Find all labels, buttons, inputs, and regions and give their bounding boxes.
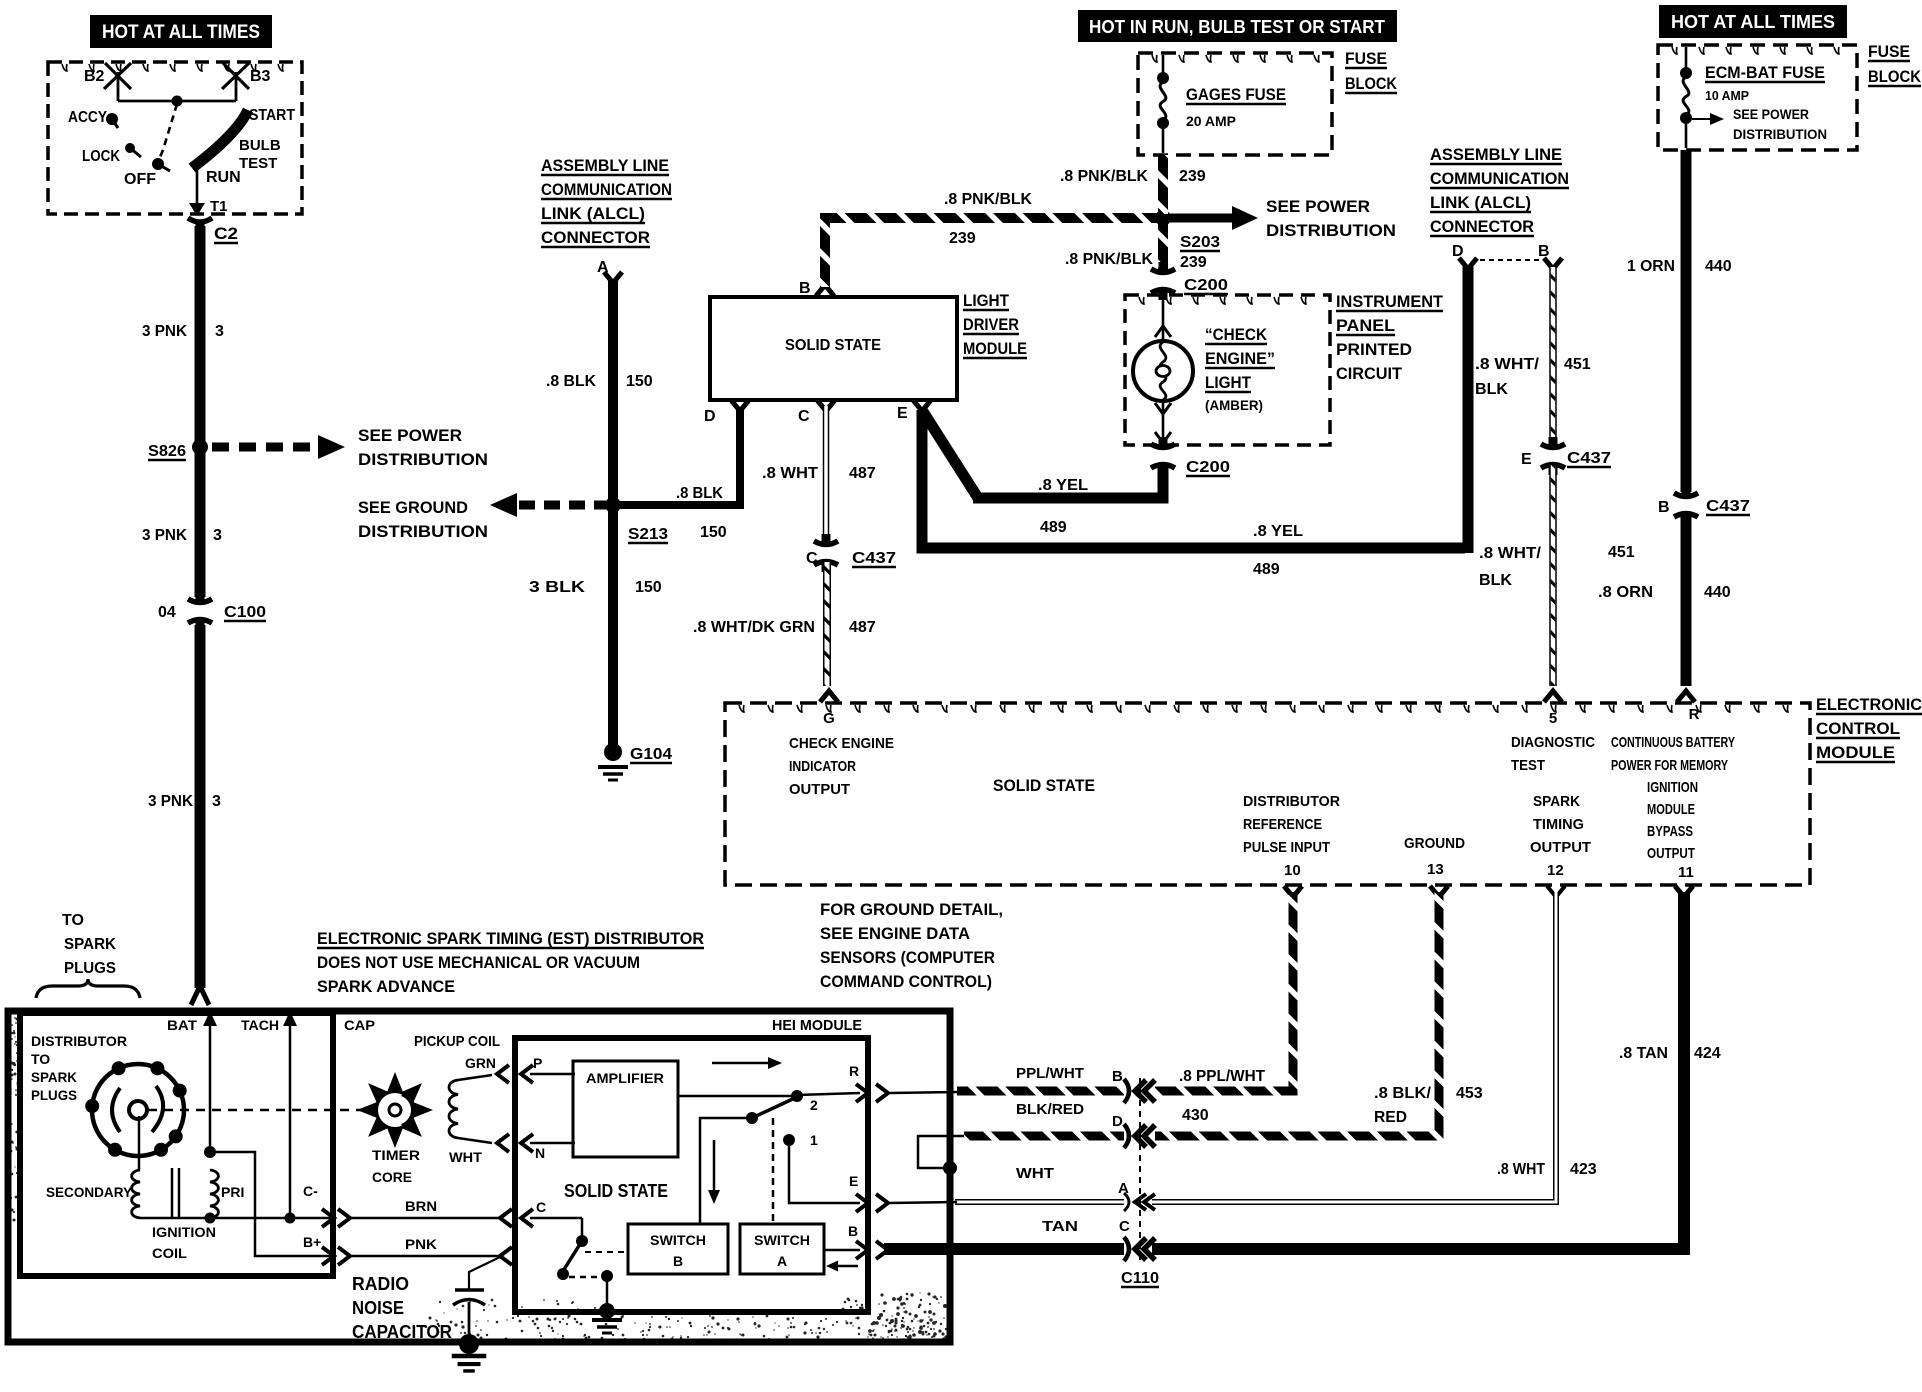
svg-text:.8 PNK/BLK: .8 PNK/BLK [1065, 251, 1153, 268]
svg-text:12: 12 [1547, 862, 1564, 879]
svg-text:20 AMP: 20 AMP [1186, 113, 1236, 129]
svg-text:.8 PNK/BLK: .8 PNK/BLK [1060, 168, 1148, 185]
svg-text:451: 451 [1564, 356, 1591, 373]
svg-text:C200: C200 [1186, 459, 1230, 476]
svg-text:COIL: COIL [152, 1245, 187, 1261]
svg-text:TACH: TACH [241, 1017, 279, 1033]
svg-text:TO: TO [62, 912, 84, 929]
svg-text:3: 3 [212, 793, 221, 810]
gages fuse F1 20A [1162, 55, 1165, 73]
svg-text:ELECTRONIC: ELECTRONIC [1816, 695, 1922, 714]
switch B [628, 1224, 728, 1274]
wire 1 ORN 440 [1681, 150, 1692, 492]
svg-text:.8 WHT/: .8 WHT/ [1475, 356, 1540, 373]
ground G104 [604, 743, 622, 761]
svg-text:G: G [823, 710, 835, 727]
svg-text:423: 423 [1570, 1161, 1597, 1178]
svg-text:G104: G104 [630, 746, 672, 763]
distributor case ground stub [918, 1136, 964, 1168]
svg-text:CHECK ENGINE: CHECK ENGINE [789, 735, 894, 752]
svg-text:E: E [1521, 451, 1532, 468]
svg-text:10 AMP: 10 AMP [1705, 88, 1749, 103]
svg-text:OFF: OFF [124, 171, 156, 188]
wire PPL/WHT to HEI module R [957, 1087, 1124, 1096]
svg-text:A: A [777, 1253, 787, 1269]
contact LOCK [125, 143, 135, 153]
svg-text:.8 YEL: .8 YEL [1253, 523, 1303, 540]
electronic control module U2 [725, 703, 1810, 885]
svg-text:CONTINUOUS BATTERY: CONTINUOUS BATTERY [1611, 734, 1735, 751]
svg-text:C100: C100 [224, 604, 266, 621]
svg-text:BLK/RED: BLK/RED [1016, 1101, 1084, 1118]
svg-text:DISTRIBUTOR: DISTRIBUTOR [1243, 793, 1340, 810]
svg-text:SWITCH: SWITCH [650, 1232, 706, 1248]
ignition switch terminal B2 arrow [117, 72, 120, 101]
wire coil common bottom [140, 1217, 332, 1220]
wire TAN to HEI module B [884, 1243, 1124, 1255]
svg-text:WHT: WHT [449, 1149, 482, 1165]
svg-text:430: 430 [1182, 1107, 1209, 1124]
svg-text:PLUGS: PLUGS [31, 1087, 77, 1103]
terminal R of ECM [1677, 691, 1695, 702]
svg-text:BLOCK: BLOCK [1345, 74, 1398, 93]
wire .8 BLK 150 to light driver module D [613, 407, 740, 505]
svg-text:239: 239 [1180, 254, 1207, 271]
svg-text:.8 WHT/DK GRN: .8 WHT/DK GRN [693, 619, 815, 636]
svg-text:CAPACITOR: CAPACITOR [352, 1322, 452, 1342]
svg-text:C: C [798, 408, 810, 425]
svg-text:D: D [1452, 243, 1464, 260]
svg-text:LIGHT: LIGHT [963, 291, 1010, 310]
svg-text:R: R [1689, 706, 1700, 723]
arrow into switch A [838, 1265, 858, 1268]
bypass switch arm [752, 1097, 797, 1118]
wire .8 PNK/BLK 239 S203 to C200 [1158, 222, 1168, 272]
svg-text:E: E [849, 1173, 858, 1189]
svg-text:LOCK: LOCK [82, 148, 120, 165]
wire secondary to rotor [138, 1116, 141, 1170]
svg-text:ELECTRONIC SPARK TIMING (EST): ELECTRONIC SPARK TIMING (EST) DISTRIBUTO… [317, 929, 704, 948]
wire B2-B3 bridge [118, 100, 236, 103]
svg-text:.8 WHT: .8 WHT [1497, 1161, 1545, 1178]
svg-text:440: 440 [1705, 258, 1732, 275]
svg-text:.8 BLK: .8 BLK [546, 373, 596, 390]
svg-text:NOISE: NOISE [352, 1298, 404, 1318]
svg-text:PANEL: PANEL [1336, 316, 1395, 335]
connector C437 (E) [1541, 444, 1565, 448]
svg-text:487: 487 [849, 619, 876, 636]
splice S213 [605, 497, 621, 513]
power label HOT IN RUN BULB TEST OR START [1078, 10, 1397, 42]
ECM terminal 12 [1547, 886, 1565, 897]
svg-text:HEI MODULE: HEI MODULE [772, 1017, 862, 1034]
svg-text:1 ORN: 1 ORN [1627, 258, 1675, 275]
svg-text:SEE POWER: SEE POWER [358, 426, 462, 445]
wire switch to module ground [606, 1276, 609, 1306]
svg-text:239: 239 [949, 230, 976, 247]
contact ACCY [106, 113, 118, 125]
svg-text:TEST: TEST [239, 155, 277, 172]
svg-text:BLK: BLK [1475, 381, 1508, 398]
svg-text:3 BLK: 3 BLK [529, 579, 586, 596]
wire .8 WHT 423 [1152, 892, 1556, 1202]
svg-text:SENSORS (COMPUTER: SENSORS (COMPUTER [820, 948, 995, 967]
switch wiper (dashed) [158, 104, 177, 162]
svg-text:COMMUNICATION: COMMUNICATION [1430, 169, 1569, 188]
svg-text:FUSE: FUSE [1868, 42, 1910, 61]
svg-text:.8 PNK/BLK: .8 PNK/BLK [944, 191, 1032, 208]
svg-text:ASSEMBLY LINE: ASSEMBLY LINE [1430, 145, 1562, 164]
connector C200 (lamp feed) [1151, 269, 1175, 273]
svg-text:.8 ORN: .8 ORN [1598, 584, 1653, 601]
arrow SEE POWER DISTRIBUTION (S826) [212, 443, 318, 452]
svg-text:PNK: PNK [405, 1236, 437, 1252]
capacitor ground [459, 1334, 479, 1354]
svg-text:.8 BLK/: .8 BLK/ [1374, 1085, 1432, 1102]
terminal 5 of ECM [1544, 691, 1562, 702]
svg-text:HOT AT ALL TIMES: HOT AT ALL TIMES [102, 22, 260, 43]
wire WHT to HEI module E [955, 1199, 1124, 1205]
contact 1 [783, 1134, 795, 1146]
svg-text:C-: C- [303, 1183, 318, 1199]
svg-text:.8 TAN: .8 TAN [1619, 1045, 1668, 1062]
coil core [171, 1168, 174, 1218]
wire pivot to switch B [700, 1118, 752, 1224]
HEI module ground [599, 1303, 615, 1319]
svg-text:CAP: CAP [344, 1017, 375, 1033]
svg-text:C200: C200 [1184, 277, 1228, 294]
timer core star [357, 1072, 433, 1148]
svg-text:COMMAND CONTROL): COMMAND CONTROL) [820, 972, 992, 991]
svg-text:PICKUP COIL: PICKUP COIL [414, 1033, 500, 1050]
svg-text:COMMUNICATION: COMMUNICATION [541, 180, 672, 199]
rotor shaft dashed line to timer core [148, 1109, 362, 1112]
wire BRN coil to module C [352, 1217, 500, 1220]
svg-text:A: A [1118, 1180, 1129, 1197]
svg-text:N: N [535, 1145, 545, 1161]
svg-text:SOLID STATE: SOLID STATE [785, 337, 881, 354]
svg-text:C: C [1119, 1218, 1130, 1235]
svg-text:FOR GROUND DETAIL,: FOR GROUND DETAIL, [820, 900, 1003, 919]
arrow SEE POWER DISTRIBUTION (S203) [1163, 214, 1232, 223]
signal arrow [712, 1062, 768, 1065]
svg-text:SEE ENGINE DATA: SEE ENGINE DATA [820, 924, 970, 943]
svg-text:INSTRUMENT: INSTRUMENT [1336, 292, 1444, 311]
grounding switch [581, 1218, 584, 1237]
svg-text:RED: RED [1374, 1109, 1407, 1126]
ignition switch terminal B3 arrow [235, 72, 238, 101]
svg-text:BLK: BLK [1479, 572, 1512, 589]
svg-text:HOT IN RUN, BULB TEST OR START: HOT IN RUN, BULB TEST OR START [1089, 17, 1385, 37]
EST distributor outer case [8, 1011, 950, 1342]
svg-text:TEST: TEST [1511, 757, 1545, 774]
svg-text:150: 150 [626, 373, 653, 390]
HEI module U3 [515, 1038, 868, 1312]
contact 2 [791, 1090, 803, 1102]
svg-text:C: C [806, 550, 818, 567]
svg-text:SWITCH: SWITCH [754, 1232, 810, 1248]
svg-text:13: 13 [1427, 861, 1444, 878]
svg-text:424: 424 [1694, 1045, 1721, 1062]
switch pivot [746, 1112, 758, 1124]
svg-text:11: 11 [1678, 864, 1694, 881]
svg-text:.8 YEL: .8 YEL [1038, 477, 1088, 494]
svg-text:RADIO: RADIO [352, 1274, 409, 1294]
light driver module U1 [710, 297, 957, 400]
power label HOT AT ALL TIMES (left) [90, 15, 272, 48]
svg-text:S213: S213 [628, 526, 668, 543]
svg-text:ECM-BAT FUSE: ECM-BAT FUSE [1705, 63, 1825, 82]
junction primary bottom [205, 1213, 216, 1224]
svg-text:INDICATOR: INDICATOR [789, 758, 856, 775]
junction primary top [204, 1146, 216, 1158]
wire .8 WHT 487 [823, 406, 830, 543]
svg-text:.8 WHT/: .8 WHT/ [1479, 545, 1542, 562]
svg-text:DISTRIBUTOR: DISTRIBUTOR [31, 1033, 127, 1049]
svg-text:T1: T1 [210, 198, 228, 215]
svg-text:B: B [799, 280, 811, 297]
svg-text:SEE POWER: SEE POWER [1266, 197, 1370, 216]
radio noise capacitor C1 [469, 1257, 500, 1289]
svg-text:BULB: BULB [239, 137, 281, 154]
connector C200 (lamp low side) [1151, 444, 1175, 448]
svg-text:.8 BLK: .8 BLK [676, 485, 723, 502]
svg-text:CORE: CORE [372, 1169, 412, 1185]
svg-text:LINK (ALCL): LINK (ALCL) [1430, 193, 1531, 212]
wire .8 YEL to ALCL D [1463, 267, 1474, 553]
svg-text:ASSEMBLY LINE: ASSEMBLY LINE [541, 156, 669, 175]
svg-text:440: 440 [1704, 584, 1731, 601]
svg-text:2: 2 [810, 1097, 818, 1113]
svg-text:START: START [249, 107, 295, 124]
svg-text:SECONDARY: SECONDARY [46, 1184, 133, 1200]
svg-text:453: 453 [1456, 1085, 1483, 1102]
svg-text:C110: C110 [1121, 1270, 1159, 1287]
svg-text:1: 1 [810, 1132, 818, 1148]
svg-text:TIMING: TIMING [1533, 816, 1584, 833]
brace to spark plugs [36, 979, 140, 998]
svg-text:S203: S203 [1180, 234, 1220, 251]
ignition switch box [48, 62, 302, 214]
svg-text:C437: C437 [1706, 498, 1750, 515]
wire .8 WHT/BLK 451 upper [1549, 267, 1557, 446]
svg-text:GROUND: GROUND [1404, 835, 1465, 852]
wire primary top to B+ [210, 1152, 332, 1256]
svg-text:BAT: BAT [167, 1017, 197, 1033]
svg-text:OUTPUT: OUTPUT [1530, 839, 1591, 856]
svg-text:MODULE: MODULE [1647, 801, 1695, 818]
svg-text:D: D [704, 408, 716, 425]
dashed link to switch A [772, 1118, 775, 1224]
svg-text:DOES NOT USE MECHANICAL OR VAC: DOES NOT USE MECHANICAL OR VACUUM [317, 953, 640, 972]
arrow SEE GROUND DISTRIBUTION (S213) [490, 493, 517, 517]
svg-text:C437: C437 [852, 550, 896, 567]
svg-text:ACCY: ACCY [68, 109, 107, 126]
svg-text:DISTRIBUTION: DISTRIBUTION [358, 450, 488, 469]
svg-text:FUSE: FUSE [1345, 49, 1387, 68]
svg-text:SPARK: SPARK [31, 1069, 77, 1085]
svg-text:150: 150 [635, 579, 662, 596]
ECM terminal 13 [1430, 886, 1448, 897]
wire RUN to T1 [196, 168, 199, 204]
connector C100 [188, 599, 212, 603]
wire .8 TAN 424 [1152, 892, 1684, 1249]
svg-text:D: D [1112, 1113, 1123, 1130]
fuse block (ECM-BAT) [1658, 45, 1857, 150]
svg-text:451: 451 [1608, 544, 1635, 561]
svg-text:LINK (ALCL): LINK (ALCL) [541, 204, 645, 223]
svg-text:3 PNK: 3 PNK [142, 323, 187, 340]
wire .8 WHT/DK GRN 487 [823, 562, 831, 686]
svg-text:MODULE: MODULE [963, 339, 1027, 358]
svg-text:3: 3 [213, 527, 222, 544]
splice S203 [1155, 210, 1171, 226]
svg-text:.8 WHT: .8 WHT [762, 465, 818, 482]
wire .8 PPL/WHT 430 [1155, 892, 1293, 1091]
svg-text:IGNITION: IGNITION [152, 1224, 216, 1240]
svg-text:RUN: RUN [206, 169, 241, 186]
svg-text:IGNITION: IGNITION [1647, 779, 1698, 796]
rotor [112, 1088, 120, 1132]
svg-text:PRI: PRI [221, 1184, 244, 1200]
svg-text:E: E [897, 405, 908, 422]
wire PNK B+ to module [352, 1255, 500, 1258]
control arrow down [713, 1140, 716, 1190]
svg-text:B2: B2 [84, 68, 105, 85]
svg-text:“CHECK: “CHECK [1205, 325, 1268, 344]
svg-text:DISTRIBUTION: DISTRIBUTION [358, 522, 488, 541]
svg-text:3: 3 [215, 323, 224, 340]
svg-text:3 PNK: 3 PNK [148, 793, 193, 810]
svg-text:TO: TO [31, 1051, 50, 1067]
svg-text:SEE POWER: SEE POWER [1733, 106, 1809, 122]
svg-text:(AMBER): (AMBER) [1205, 397, 1263, 413]
connector C110 [1139, 1078, 1141, 1262]
arrow SEE POWER DISTRIBUTION (fuse) [1692, 118, 1710, 120]
svg-text:C2: C2 [214, 224, 238, 243]
svg-text:PULSE INPUT: PULSE INPUT [1243, 839, 1330, 856]
svg-text:SEE GROUND: SEE GROUND [358, 498, 468, 517]
svg-text:C: C [536, 1199, 546, 1215]
primary winding [210, 1170, 218, 1218]
wire .8 BLK 150 (ALCL ground) [608, 281, 618, 751]
wire .8 YEL 489 (upper) [922, 410, 978, 498]
svg-text:PLUGS: PLUGS [64, 960, 116, 977]
svg-text:SOLID STATE: SOLID STATE [993, 776, 1095, 795]
svg-text:3 PNK: 3 PNK [142, 527, 187, 544]
svg-text:04: 04 [158, 604, 176, 621]
svg-text:DRIVER: DRIVER [963, 315, 1019, 334]
svg-text:WHT: WHT [1016, 1165, 1054, 1182]
svg-text:B: B [1658, 499, 1670, 516]
svg-text:DISTRIBUTION: DISTRIBUTION [1733, 126, 1827, 142]
scan noise speckles [9, 1017, 948, 1342]
wire .8 PNK/BLK 239 fuse to S203 [1158, 155, 1168, 214]
wire switch A to terminal B [824, 1249, 860, 1252]
svg-text:MODULE: MODULE [1816, 743, 1895, 762]
terminal P of HEI module [497, 1065, 509, 1083]
svg-text:OUTPUT: OUTPUT [789, 781, 850, 798]
svg-text:B3: B3 [250, 68, 271, 85]
distributor cap compartment box [20, 1013, 333, 1276]
svg-text:REFERENCE: REFERENCE [1243, 816, 1322, 833]
svg-text:CONTROL: CONTROL [1816, 719, 1900, 738]
svg-text:487: 487 [849, 465, 876, 482]
wire amplifier output to contact 2 [678, 1095, 797, 1098]
svg-text:SPARK ADVANCE: SPARK ADVANCE [317, 977, 455, 996]
svg-text:LIGHT: LIGHT [1205, 373, 1252, 392]
svg-text:CONNECTOR: CONNECTOR [1430, 217, 1534, 236]
wire 3 PNK 3 (ignition feed) [195, 226, 206, 597]
contact OFF [152, 158, 164, 170]
svg-text:489: 489 [1040, 519, 1067, 536]
svg-text:B: B [1538, 243, 1550, 260]
power label HOT AT ALL TIMES (right) [1659, 5, 1847, 38]
svg-text:B: B [673, 1253, 683, 1269]
secondary winding [132, 1170, 140, 1218]
svg-text:SOLID STATE: SOLID STATE [564, 1181, 668, 1201]
ECM terminal 11 [1675, 886, 1693, 897]
svg-text:BYPASS: BYPASS [1647, 823, 1693, 840]
svg-text:HOT AT ALL TIMES: HOT AT ALL TIMES [1671, 12, 1835, 32]
svg-text:PRINTED: PRINTED [1336, 340, 1412, 359]
splice S826 [192, 439, 208, 455]
svg-text:DIAGNOSTIC: DIAGNOSTIC [1511, 734, 1595, 751]
svg-text:DISTRIBUTION: DISTRIBUTION [1266, 221, 1396, 240]
svg-text:PPL/WHT: PPL/WHT [1016, 1065, 1084, 1082]
fuse block (gages) [1138, 53, 1332, 155]
check engine indicator lamp [1162, 297, 1165, 341]
wire .8 BLK/RED 453 [1155, 892, 1439, 1136]
svg-text:TAN: TAN [1042, 1218, 1078, 1235]
amplifier A1 [573, 1061, 678, 1157]
terminal G of ECM [820, 691, 838, 702]
svg-text:.8 PPL/WHT: .8 PPL/WHT [1179, 1068, 1265, 1085]
svg-text:P: P [533, 1055, 542, 1071]
svg-text:GRN: GRN [465, 1055, 496, 1071]
switch travel arc RUN to START [192, 110, 248, 168]
svg-text:OUTPUT: OUTPUT [1647, 845, 1695, 862]
wire .8 PNK/BLK 239 from module B [825, 218, 1158, 287]
ECM terminal 10 [1284, 886, 1302, 897]
wire .8 YEL 489 (lower) [922, 410, 1465, 548]
svg-text:GAGES FUSE: GAGES FUSE [1186, 85, 1286, 104]
distributor cap [92, 1064, 184, 1156]
svg-text:10: 10 [1284, 862, 1301, 879]
wire .8 WHT/BLK 451 lower [1549, 465, 1557, 686]
svg-text:150: 150 [700, 524, 727, 541]
svg-text:SPARK: SPARK [64, 936, 116, 953]
terminal N of HEI module [497, 1134, 509, 1152]
connector C2 [188, 218, 212, 222]
svg-text:CIRCUIT: CIRCUIT [1336, 364, 1403, 383]
svg-text:5: 5 [1549, 710, 1557, 727]
connector C437 (C) [814, 541, 838, 545]
switch A [740, 1224, 824, 1274]
svg-text:AMPLIFIER: AMPLIFIER [586, 1070, 664, 1086]
svg-text:POWER FOR MEMORY: POWER FOR MEMORY [1611, 757, 1728, 774]
svg-text:ENGINE”: ENGINE” [1205, 349, 1275, 368]
svg-text:B: B [1112, 1068, 1123, 1085]
svg-text:TIMER: TIMER [372, 1147, 420, 1163]
wire .8 ORN 440 [1681, 513, 1692, 686]
svg-text:239: 239 [1179, 168, 1206, 185]
svg-text:R: R [849, 1063, 859, 1079]
svg-text:BRN: BRN [405, 1198, 437, 1214]
svg-text:S826: S826 [148, 443, 186, 460]
wire BLK/RED to distributor case [964, 1132, 1124, 1141]
dashed link C switch to switch B [585, 1251, 626, 1253]
